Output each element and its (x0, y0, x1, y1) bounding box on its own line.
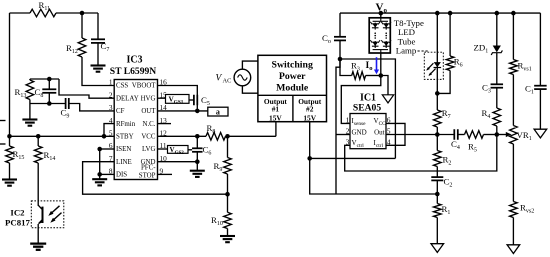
node R9-R10 (225, 192, 230, 197)
wire RFmin drop (104, 124, 114, 137)
wire VBOOT pin16 (158, 86, 198, 111)
node Vo (379, 11, 384, 16)
wire OUT pin14 (158, 110, 208, 112)
wire HVG pin15 (158, 97, 166, 99)
wire GND pin10 (158, 161, 198, 163)
svg-text:#1: #1 (272, 105, 280, 114)
resistor R10 (211, 194, 231, 236)
resistor R14 (34, 136, 55, 206)
node C8 top (47, 77, 52, 82)
svg-text:3: 3 (346, 137, 350, 146)
node R14 top (36, 134, 41, 139)
capacitor C4 (451, 129, 465, 151)
ground C6 (190, 162, 205, 177)
resistor R9 (214, 136, 232, 194)
capacitor C9 (61, 98, 115, 119)
zener ZD1 (474, 13, 503, 55)
resistor Rvs2 (510, 202, 535, 245)
node top-left (80, 11, 85, 16)
node rail-STBY (7, 134, 12, 139)
node ISEN (97, 147, 102, 152)
optocoupler LED IC2 (424, 52, 443, 79)
capacitor C3 (482, 53, 503, 108)
wire ISEN-DIS (99, 149, 101, 174)
svg-text:CSS: CSS (116, 83, 128, 90)
ground DIS (92, 174, 107, 185)
wire emitter (37, 224, 39, 244)
svg-text:RFmin: RFmin (116, 121, 136, 128)
ground R13 (22, 104, 37, 126)
resistor R15 (6, 136, 25, 179)
svg-text:DIS: DIS (116, 172, 127, 179)
resistor R6 (437, 13, 462, 93)
wire STBY rail (10, 135, 115, 137)
svg-text:#2: #2 (306, 105, 314, 114)
svg-text:8: 8 (109, 167, 113, 176)
op-amp U1 controller IC3 ST L6599N (109, 55, 167, 180)
svg-text:a: a (216, 107, 220, 116)
svg-text:OUT: OUT (141, 108, 156, 115)
resistor R7 (434, 93, 451, 134)
svg-text:LINE: LINE (116, 159, 132, 166)
ground Rvs2 (507, 245, 520, 254)
resistor Rvs1 (510, 13, 532, 125)
node R8 right (225, 134, 230, 139)
node Co bottom (338, 57, 343, 62)
svg-text:4: 4 (109, 116, 113, 125)
wire GND net to return node (336, 59, 340, 194)
node C6 bottom (195, 159, 200, 164)
wire DIS pin8 (100, 173, 115, 175)
wire to IC1 arrow (381, 76, 388, 95)
arrow into IC1 (382, 95, 393, 103)
node Out R7 (435, 132, 440, 137)
wire stub left b (0, 143, 6, 145)
capacitor C5 (189, 95, 210, 107)
wire NC pin13 (158, 123, 172, 125)
wire VCC pin12 (158, 135, 207, 137)
svg-text:Out: Out (374, 128, 385, 136)
ground C7 (91, 66, 106, 72)
svg-text:2: 2 (109, 90, 113, 99)
node C6 top (195, 134, 200, 139)
resistor R4 (482, 108, 501, 135)
svg-text:STOP: STOP (139, 172, 156, 179)
capacitor Co (322, 13, 346, 59)
svg-text:Power: Power (279, 71, 306, 82)
wire left rail (9, 13, 11, 136)
node C2 R1 (435, 192, 440, 197)
svg-text:Lamp: Lamp (396, 46, 417, 56)
wire LINE pin7 to R9-R10 node (83, 162, 228, 195)
svg-text:SEA05: SEA05 (353, 103, 381, 114)
svg-text:VCC: VCC (141, 134, 156, 141)
wire output1 to VCC (275, 122, 277, 137)
leader lamp (418, 50, 430, 52)
svg-text:GND: GND (352, 128, 367, 136)
node ZD1 rail (495, 11, 500, 16)
capacitor C6 (192, 136, 211, 161)
ground R10 (220, 236, 235, 242)
svg-text:VBOOT: VBOOT (132, 83, 157, 90)
resistor R2 (434, 135, 452, 178)
node RFmin-STBY (102, 134, 107, 139)
wire LVG pin11 (158, 148, 168, 150)
wire Co to R3 (340, 59, 352, 76)
wire Out pin5 (386, 134, 454, 136)
wire Isense pin1 to R3 right (341, 76, 381, 124)
wire Vctrl feedback (345, 135, 497, 172)
svg-text:Switching: Switching (272, 60, 313, 71)
resistor R3 (351, 61, 381, 80)
svg-text:HVG: HVG (141, 95, 156, 102)
node link a (208, 107, 228, 116)
resistor R8 (206, 123, 276, 140)
svg-text:5: 5 (109, 129, 113, 138)
svg-text:IC2: IC2 (10, 208, 25, 218)
svg-text:ISEN: ISEN (116, 146, 131, 153)
svg-text:15V: 15V (269, 114, 282, 123)
wire GND pin2 (336, 134, 350, 136)
wire DELAY pin2 (59, 79, 114, 98)
capacitor C8 (30, 79, 66, 104)
svg-text:PFC-: PFC- (141, 164, 156, 171)
wire PFC-STOP pin9 (158, 173, 173, 175)
wire return to IC1 net (340, 59, 395, 158)
svg-text:15V: 15V (303, 114, 316, 123)
node DIS (97, 172, 102, 177)
ground C1 (534, 129, 547, 138)
wire Vcc pin6 to Ictrl pin4 (386, 123, 405, 145)
ground R1 (431, 244, 444, 253)
wire opto branch (436, 13, 438, 93)
resistor R11 (10, 0, 99, 17)
node R4 R5 VR1 (495, 132, 500, 137)
resistor R5 (465, 131, 497, 154)
resistor R1 (434, 194, 451, 244)
ground R15 (2, 180, 17, 186)
svg-text:PC817: PC817 (5, 218, 31, 228)
label T8 (394, 18, 424, 56)
T8 LED tube lamp (369, 13, 391, 53)
capacitor C1 (525, 13, 547, 129)
wire output2 down (310, 122, 438, 194)
svg-text:CF: CF (116, 108, 125, 115)
wire output2 to IC1 Vcc-net (310, 157, 396, 159)
potentiometer VR1 (497, 126, 532, 202)
node output2 branch (307, 156, 312, 161)
svg-text:LVG: LVG (142, 146, 156, 153)
node opto rail (435, 11, 440, 16)
node C8 bottom (47, 101, 52, 106)
wire stub left a (0, 120, 6, 122)
node R7 top (435, 91, 440, 96)
node OUT pin14 (195, 109, 200, 114)
box VGS1 (166, 95, 190, 106)
svg-text:AC: AC (223, 77, 232, 84)
resistor R12 (66, 13, 114, 86)
node Rvs1 rail (511, 11, 516, 16)
resistor R13 (15, 79, 34, 104)
arrow Io (374, 57, 379, 74)
transistor Q1 optocoupler IC2 PC817 (31, 201, 64, 228)
svg-text:1: 1 (109, 78, 113, 87)
wire lamp to R3 node (380, 53, 382, 76)
capacitor C7 (91, 13, 109, 66)
wire ISEN pin6 (100, 148, 115, 150)
node R3 right (379, 73, 384, 78)
switching power module (258, 55, 327, 122)
label IC2 (5, 208, 31, 228)
wire Vo rail (340, 12, 540, 14)
svg-text:DELAY: DELAY (116, 95, 139, 102)
svg-text:N.C.: N.C. (142, 121, 155, 128)
svg-text:7: 7 (109, 154, 113, 163)
svg-text:ST L6599N: ST L6599N (110, 66, 157, 77)
node R6 rail (448, 11, 453, 16)
svg-text:6: 6 (109, 141, 113, 150)
ground IC2 (30, 244, 46, 250)
svg-text:Module: Module (276, 83, 309, 94)
capacitor C2 (431, 177, 452, 195)
svg-text:IC3: IC3 (126, 55, 142, 66)
op-amp U2 controller IC1 SEA05 (346, 92, 391, 149)
svg-text:STBY: STBY (116, 134, 134, 141)
box VGS2 (168, 146, 193, 156)
source VAC (216, 61, 258, 93)
svg-text:3: 3 (109, 103, 113, 112)
